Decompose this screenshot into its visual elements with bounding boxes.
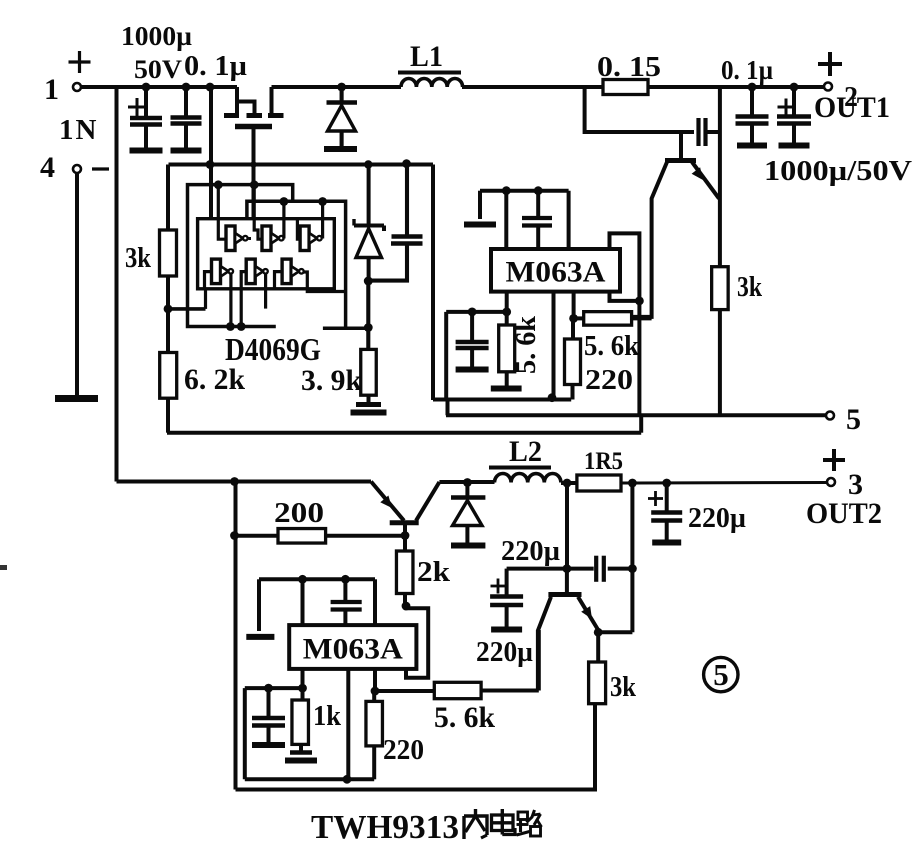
resistor R12 220 bottom [366, 701, 383, 746]
junction dots on M063A1 rail [502, 186, 511, 195]
junction dot L2 out [563, 479, 572, 488]
minus sign at terminal 4 [92, 167, 109, 170]
wire L2 node down [565, 483, 569, 569]
svg-text:3k: 3k [737, 271, 763, 303]
junction dot 1R5 out [628, 479, 637, 488]
wire Q3 collector corner [598, 630, 632, 634]
inverter U1B [262, 226, 271, 251]
transistor Q3 collector lead with arrow [578, 597, 598, 630]
wire box bottom right corner [639, 415, 643, 432]
junction dot 2k loop [402, 602, 411, 611]
wire 1R5 node down [630, 483, 634, 632]
capacitor C7 in U2 inner box [470, 312, 474, 340]
plus sign at terminal 1 [69, 60, 91, 63]
plus sign OUT1 [818, 62, 842, 66]
junction dot C10 [790, 83, 799, 92]
zener diode DZ1 [367, 165, 371, 226]
wire L1 to resistor 0.15 [462, 85, 603, 89]
wire 6.2k junction line [168, 307, 206, 311]
inverter U1E [246, 259, 255, 284]
node terminal 3 OUT2 [827, 478, 835, 486]
box D4069G feedback edge [247, 201, 346, 328]
caption CJK dian [492, 815, 514, 831]
resistor R6 220 [571, 318, 575, 339]
ground bar of terminal 4 [55, 395, 98, 402]
box D4069G inner [198, 219, 335, 289]
wire from top rail down to D4069G box [209, 87, 213, 219]
wire coupling line [507, 567, 594, 571]
ground bar of R4 [491, 386, 522, 392]
transistor Q1 base stem [679, 132, 683, 158]
wire 3k to junction [166, 276, 170, 309]
wire top rail from terminal 1 [81, 85, 237, 89]
resistor R4 5.6k vertical [505, 312, 509, 325]
inverter U1F [282, 259, 291, 284]
wire bottom feed horizontal [117, 480, 372, 484]
wire M1 gate stem into D4069G [252, 129, 256, 219]
svg-text:D4069G: D4069G [225, 331, 321, 367]
svg-text:5. 6k: 5. 6k [434, 701, 495, 734]
diode D1 freewheel [340, 87, 344, 101]
plus mark of C1 [128, 106, 146, 109]
svg-text:5. 6k: 5. 6k [510, 315, 542, 374]
junction dot C13 [662, 479, 671, 488]
wire link inner box to 6.2k line [204, 289, 207, 309]
wire zener column down [366, 281, 370, 349]
wire inverter6 output down [302, 272, 346, 292]
transistor Q1 bar [665, 158, 696, 163]
wire U3 right loop [405, 608, 429, 678]
junction dot zener bottom segment [364, 323, 373, 332]
wire terminal 5 rail [446, 413, 827, 417]
wire 3k to bottom rail [236, 704, 596, 790]
inner box bottom edge [433, 398, 571, 402]
capacitor C13 220u output [665, 483, 669, 511]
junction dot pin2 bottom [548, 393, 557, 402]
svg-text:5. 6k: 5. 6k [584, 330, 640, 362]
wire pin to box top [504, 191, 508, 249]
junction dot cap C2 [182, 83, 191, 92]
transistor Q2 emitter lead with arrow [371, 482, 404, 521]
wire 2k to U3 loop [403, 594, 407, 607]
node terminal 1 (+ input) [73, 83, 81, 91]
wire inverter4 output down [229, 273, 232, 327]
wire U3 pin3 down [373, 669, 377, 691]
resistor R3 3.9k [361, 349, 377, 395]
svg-text:0. 1µ: 0. 1µ [184, 51, 247, 82]
junction dot pin2 rail [343, 775, 352, 784]
svg-text:2k: 2k [417, 556, 451, 588]
wire U2 pin3 down [572, 292, 576, 319]
resistor R11 1k [301, 688, 305, 700]
svg-text:1k: 1k [313, 700, 342, 732]
wire drop to base network [585, 87, 694, 132]
wire 200 to Q2 base [326, 534, 405, 538]
capacitor C12 coupling [594, 556, 598, 582]
wire long left vertical to bottom section [115, 87, 119, 482]
plus sign OUT2 [823, 458, 845, 462]
svg-text:3k: 3k [125, 242, 152, 274]
junction dot pin3 node [371, 687, 380, 696]
IC U3 M063A box [289, 625, 416, 669]
junction dot right loop [635, 297, 644, 306]
wire inverter2 output up [282, 202, 286, 239]
wire 1R5 to OUT2 [621, 481, 828, 485]
resistor R1 3k [160, 230, 177, 276]
svg-text:1R5: 1R5 [584, 448, 623, 475]
inverter U1A [226, 226, 235, 251]
wire rail5 left corner up [446, 400, 450, 416]
svg-text:220µ: 220µ [476, 637, 533, 668]
wire lower rail left corner down to 3k [166, 165, 170, 231]
wire U2 bottom right stub to loop [610, 292, 640, 301]
junction dot right of C12 [628, 564, 637, 573]
svg-text:6. 2k: 6. 2k [184, 363, 245, 396]
svg-text:5: 5 [846, 403, 861, 436]
wire 3k down to rail5 [718, 310, 722, 416]
wire M063A2 top rail [259, 577, 375, 581]
wire pin to box2 top [301, 579, 305, 625]
resistor R5 5.6k horizontal [574, 316, 584, 320]
resistor R10 1R5 [561, 481, 577, 485]
junction dot on lower rail [206, 160, 215, 169]
node terminal 2 OUT1 [824, 83, 832, 91]
svg-text:TWH9313: TWH9313 [311, 809, 459, 846]
junction dot cap C7 top [468, 308, 477, 317]
resistor R14 5.6k bottom [375, 689, 434, 693]
inverter U1D [212, 259, 221, 284]
wire top rail segment to L1 [272, 85, 402, 89]
capacitor C11 220u base [505, 569, 509, 595]
svg-text:3. 9k: 3. 9k [301, 364, 362, 397]
node terminal 5 [826, 412, 834, 420]
plus mark of C13 [648, 497, 663, 500]
transistor Q1 collector lead [632, 162, 667, 317]
junction dot cap C3 top [402, 159, 411, 168]
wire rail2 left stem [257, 579, 261, 631]
wire inverter4 input elbow [205, 272, 212, 289]
transistor M1 gate plate [235, 124, 272, 130]
wire inverter1 input elbow [218, 185, 225, 239]
svg-text:1000µ/50V: 1000µ/50V [764, 156, 912, 187]
svg-text:5: 5 [713, 657, 729, 692]
left box top edge [245, 686, 303, 690]
wire Q2 collector to L2 [439, 480, 494, 484]
transistor M1 chopper (finger 1) [235, 87, 239, 113]
junction dot 6.2k line [164, 305, 173, 314]
diode D2 freewheel bottom [465, 483, 469, 496]
wire output vertical [718, 87, 722, 267]
ground of 3.9k [367, 395, 371, 404]
svg-text:220µ: 220µ [501, 536, 560, 567]
svg-text:50V: 50V [134, 55, 182, 84]
svg-text:L2: L2 [509, 435, 542, 468]
svg-text:1: 1 [44, 73, 59, 106]
capacitor C14 on M063A2 rail [343, 579, 347, 600]
transistor Q3 emitter lead [538, 597, 551, 690]
junction dot pin1 node [298, 684, 307, 693]
caption CJK nei [462, 816, 465, 839]
junction dots on M063A2 rail [298, 575, 307, 584]
wire M063A1 rail left stem [478, 191, 482, 219]
resistor R 0.15 [603, 80, 648, 95]
wire U3 pin1 down [301, 669, 305, 688]
junction dot feed to logic box [206, 83, 215, 92]
capacitor C8 series in base line [696, 118, 700, 146]
junction dot C9 [748, 83, 757, 92]
capacitor C2 0.1u input [184, 87, 188, 116]
wire M063A1 top rail [480, 189, 569, 193]
capacitor C9 0.1u output [750, 87, 754, 115]
svg-text:4: 4 [40, 151, 55, 184]
junction dot bottom feed [230, 477, 239, 486]
wire terminal4 down [75, 174, 79, 395]
junction dot diode D2 [463, 478, 472, 487]
node terminal 4 (- input) [73, 165, 81, 173]
junction dot Q3 base node [563, 564, 572, 573]
box D4069G outer [188, 185, 293, 327]
wire lower rail [169, 162, 434, 166]
wire inverter5 input elbow [241, 272, 246, 327]
junction dots on box bottom [226, 322, 235, 331]
transistor Q3 bar [548, 592, 581, 597]
wire left column down [234, 482, 238, 790]
wire bottom rail1 [245, 777, 374, 781]
junction dot diode D1 [337, 83, 346, 92]
resistor R2 6.2k [166, 309, 170, 353]
wire inverter2 input elbow [254, 185, 261, 239]
resistor R9 2k [403, 536, 407, 551]
left box left edge [243, 688, 247, 779]
inverter U1C [300, 226, 309, 251]
IC U2 M063A box [491, 249, 620, 292]
transistor Q2 bar [390, 520, 419, 525]
wire inverter3 input elbow [297, 219, 299, 240]
plus mark of C11 [491, 585, 506, 588]
ground of M063A2 rail [246, 634, 274, 640]
svg-text:L1: L1 [410, 40, 443, 73]
scan speck left edge [0, 565, 7, 570]
svg-text:200: 200 [274, 498, 324, 529]
junction dot Q3 collector [594, 628, 603, 637]
junction dot 200 line [230, 531, 239, 540]
capacitor C6 on M063A1 rail [536, 191, 540, 216]
capacitor C10 1000u/50V output [792, 87, 796, 115]
junction dot cap C15 [264, 684, 273, 693]
inner box top edge [446, 310, 507, 314]
junction dot Q2 base node [401, 531, 410, 540]
svg-text:1N: 1N [59, 114, 98, 146]
resistor R13 3k bottom [596, 632, 600, 662]
wire box bottom edge [167, 431, 641, 435]
ground of 1k [299, 744, 303, 752]
transistor M1 (finger 3) [270, 87, 274, 113]
wire 200 line [235, 534, 279, 538]
svg-text:1000µ: 1000µ [121, 21, 192, 51]
plus mark of C10 [778, 106, 795, 109]
wire second box bottom right segment [323, 327, 370, 331]
junction dot gate stem on rail [250, 161, 256, 167]
transistor Q2 base stem [403, 525, 407, 536]
wire rail right end down [567, 191, 571, 249]
svg-text:0. 1µ: 0. 1µ [721, 55, 773, 85]
wire U2 pin2 down [552, 293, 556, 399]
capacitor C15 in left box [267, 688, 271, 716]
wire inverter3 output up [321, 202, 324, 239]
svg-text:OUT1: OUT1 [814, 91, 890, 124]
resistor R7 3k output [712, 267, 729, 310]
junction dot pin1/inner box [502, 308, 511, 317]
wire 5.6k up to Q3 [537, 630, 541, 691]
junction dots on feedback edge [280, 197, 289, 206]
caption CJK lu [518, 812, 528, 820]
transistor Q3 base stem [565, 569, 569, 593]
junction dot zener/cap [364, 277, 373, 286]
wire inverter6 input elbow [275, 272, 282, 289]
capacitor C1 1000u/50V input [144, 87, 148, 116]
inner box left edge [444, 312, 448, 400]
svg-text:OUT2: OUT2 [806, 497, 882, 530]
wire inverter5 output down [264, 273, 267, 309]
resistor R8 200 [278, 529, 326, 544]
svg-text:M063A: M063A [506, 256, 606, 289]
wire 0.15 to OUT1 [648, 85, 825, 89]
wire U3 pin2 down [346, 669, 350, 779]
svg-text:M063A: M063A [303, 633, 403, 666]
transistor Q1 emitter lead with arrow [692, 162, 719, 199]
junction dot cap C1 [142, 83, 151, 92]
svg-text:220: 220 [585, 364, 633, 396]
svg-text:220µ: 220µ [688, 503, 746, 534]
transistor M1 (finger 2 with jog) [237, 102, 255, 114]
wire U2 pin1 down [505, 292, 509, 312]
svg-text:3k: 3k [610, 671, 637, 703]
junction dot zener top [364, 160, 372, 168]
transistor Q2 collector lead [416, 482, 439, 521]
wire lower rail right corner down (box left edge) [431, 165, 435, 401]
wire 6.2k to box bottom [166, 398, 170, 433]
ground of M063A1 rail [464, 222, 496, 228]
capacitor C3 beside zener [405, 165, 409, 237]
wire rail2 right end down [373, 579, 377, 625]
junction dot pin3 [569, 314, 578, 323]
wire inverter1 output up [249, 237, 252, 240]
junction dots on box top edge [214, 180, 223, 189]
wire U2 right loop [610, 233, 640, 415]
svg-text:220: 220 [383, 735, 424, 766]
circled 5 figure number [704, 657, 738, 691]
